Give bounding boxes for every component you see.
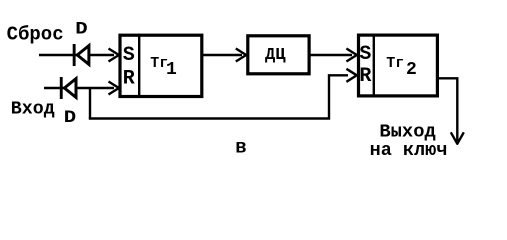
svg-text:D: D [64, 108, 76, 128]
wire: Вход input line [44, 87, 114, 89]
wire: Тг2 output, right then down [439, 78, 457, 141]
wire: Сброс input line [39, 54, 114, 56]
wire: bottom bus to R of Тг2 [89, 75, 348, 118]
svg-text:Тг: Тг [386, 55, 404, 72]
arrowhead into R of Тг2 [346, 69, 356, 82]
wire: ДЦ output to S of Тг2 [310, 54, 352, 56]
arrowhead into ДЦ [236, 49, 246, 62]
trigger block Тг1: outline [120, 35, 202, 96]
arrowhead down to key [451, 132, 464, 144]
svg-text:S: S [359, 43, 371, 66]
arrowhead into R of Тг1 [109, 82, 119, 95]
arrowhead into S of Тг1 [109, 49, 119, 62]
svg-text:Вход: Вход [11, 100, 55, 120]
svg-text:в: в [235, 136, 246, 158]
svg-text:ДЦ: ДЦ [265, 46, 286, 65]
svg-text:D: D [75, 20, 87, 40]
svg-text:1: 1 [166, 60, 177, 80]
arrowhead into S of Тг2 [346, 49, 356, 62]
trigger block Тг2: S/R divider [373, 34, 375, 97]
wire: Тг1 output to ДЦ [203, 54, 242, 56]
svg-text:R: R [359, 65, 371, 88]
diode D top: cathode bar [73, 44, 76, 66]
node: junction below bottom diode, drop wire [89, 88, 91, 119]
trigger block Тг1: S/R divider [138, 34, 140, 98]
diode D bottom: triangle [64, 79, 76, 98]
trigger block Тг2: outline [359, 35, 438, 96]
svg-text:Сброс: Сброс [7, 24, 64, 46]
diode D top: triangle [77, 46, 89, 65]
svg-text:S: S [123, 44, 135, 67]
svg-text:на ключ: на ключ [370, 140, 448, 161]
svg-text:2: 2 [406, 60, 417, 80]
svg-text:R: R [123, 68, 135, 91]
svg-text:Выход: Выход [379, 120, 435, 142]
diode D bottom: cathode bar [60, 77, 63, 99]
block ДЦ: outline [248, 36, 309, 74]
